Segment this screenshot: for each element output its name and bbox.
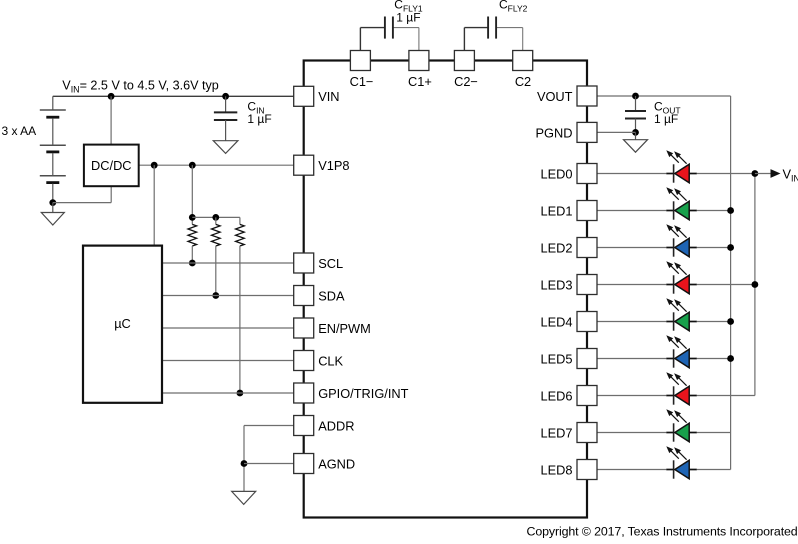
- svg-text:µC: µC: [114, 316, 131, 331]
- svg-text:C1−: C1−: [350, 74, 374, 89]
- svg-text:LED3: LED3: [540, 277, 572, 292]
- svg-text:EN/PWM: EN/PWM: [318, 321, 371, 336]
- svg-text:C2−: C2−: [454, 74, 478, 89]
- svg-text:LED1: LED1: [540, 203, 572, 218]
- svg-text:LED4: LED4: [540, 314, 572, 329]
- svg-text:1 µF: 1 µF: [654, 112, 678, 126]
- svg-text:3 x AA: 3 x AA: [2, 124, 37, 138]
- svg-text:1 µF: 1 µF: [396, 10, 420, 24]
- svg-text:LED0: LED0: [540, 166, 572, 181]
- svg-text:VIN= 2.5 V to 4.5 V, 3.6V typ: VIN= 2.5 V to 4.5 V, 3.6V typ: [62, 78, 219, 94]
- svg-text:1 µF: 1 µF: [247, 112, 271, 126]
- svg-text:LED8: LED8: [540, 462, 572, 477]
- svg-text:VIN: VIN: [318, 89, 339, 104]
- svg-text:PGND: PGND: [536, 125, 573, 140]
- svg-text:Copyright © 2017, Texas Instru: Copyright © 2017, Texas Instruments Inco…: [527, 524, 798, 538]
- svg-text:SCL: SCL: [318, 256, 343, 271]
- svg-text:ADDR: ADDR: [318, 418, 354, 433]
- svg-text:V1P8: V1P8: [318, 158, 349, 173]
- svg-text:LED6: LED6: [540, 388, 572, 403]
- svg-text:GPIO/TRIG/INT: GPIO/TRIG/INT: [318, 386, 408, 401]
- svg-text:VOUT: VOUT: [537, 89, 573, 104]
- svg-text:LED5: LED5: [540, 351, 572, 366]
- svg-text:LED2: LED2: [540, 240, 572, 255]
- svg-text:SDA: SDA: [318, 288, 345, 303]
- svg-text:C2: C2: [515, 74, 531, 89]
- svg-text:LED7: LED7: [540, 425, 572, 440]
- svg-text:C1+: C1+: [408, 74, 432, 89]
- svg-text:CLK: CLK: [318, 353, 343, 368]
- svg-text:AGND: AGND: [318, 456, 355, 471]
- svg-text:DC/DC: DC/DC: [91, 158, 132, 173]
